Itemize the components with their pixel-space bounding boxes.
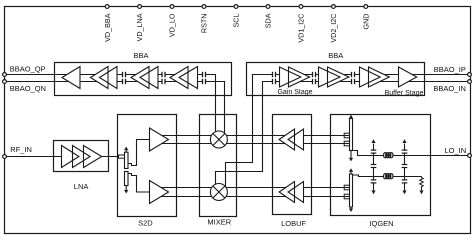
- capacitor (IQGEN column 1 upper, to VDD arrow): [372, 151, 374, 153]
- svg-text:VD_BBA: VD_BBA: [103, 13, 112, 42]
- pin VD_LO (top terminal): [170, 5, 174, 9]
- capacitor C2b (left BBA coupling, - line): [163, 80, 165, 82]
- capacitor (IQGEN column 2 lower, to ground): [403, 180, 405, 182]
- op-amp A8 (right BBA buffer output): [399, 67, 417, 87]
- svg-text:VD1_I2C: VD1_I2C: [297, 14, 306, 43]
- svg-text:LO_IN: LO_IN: [445, 146, 467, 155]
- svg-text:RF_IN: RF_IN: [10, 145, 32, 154]
- capacitor C4b (right BBA input coupling, - line): [273, 80, 275, 82]
- pin BBAO_QP (left terminal): [3, 73, 7, 77]
- op-amp LNA stage 1: [62, 146, 79, 168]
- capacitor C1a (left BBA coupling, + line): [123, 73, 125, 75]
- wire bottom differential pair - (S2D to MIXER to LOBUF to IQGEN): [152, 196, 349, 198]
- transistor Q1 (S2D single-to-differential splitter): [125, 152, 129, 185]
- gate staple of Q2 lower: [344, 141, 349, 146]
- op-amp A3b (left BBA stage): [140, 67, 158, 89]
- pin LO_IN (right terminal): [468, 154, 472, 158]
- wire IQGEN Q output + lead: [331, 187, 350, 189]
- svg-text:LNA: LNA: [74, 182, 89, 191]
- pin VD1_I2C (top terminal): [299, 5, 303, 9]
- gate staple of Q1: [119, 155, 125, 158]
- op-amp A7a (right BBA buffer stage): [360, 67, 381, 87]
- wire Q2 top to supply arrow: [350, 115, 352, 118]
- pin VD_BBA (top terminal): [105, 5, 109, 9]
- svg-text:MIXER: MIXER: [207, 217, 231, 226]
- pin BBAO_IP (right terminal): [468, 73, 472, 77]
- pin RSTN (top terminal): [202, 5, 206, 9]
- svg-text:Gain Stage: Gain Stage: [277, 89, 312, 96]
- svg-text:S2D: S2D: [138, 219, 153, 228]
- op-amp A7b (right BBA buffer stage): [369, 67, 390, 87]
- wire top differential pair - (S2D to MIXER to LOBUF to IQGEN): [152, 143, 349, 145]
- ground arrow below resistor R1: [419, 190, 423, 194]
- power arrow above IQGEN column 2: [402, 139, 406, 143]
- svg-text:SDA: SDA: [264, 13, 273, 28]
- wire IQGEN Q output - lead: [331, 196, 350, 198]
- capacitor (IQGEN column 2 upper, to VDD arrow): [403, 151, 405, 153]
- capacitor C3a (left BBA input coupling, + line): [203, 73, 205, 75]
- mixer M1 (top): [210, 131, 227, 148]
- transistor Q2 (IQGEN I-path buffer): [350, 119, 353, 151]
- svg-text:BBAO_QP: BBAO_QP: [10, 64, 46, 73]
- svg-text:BBA: BBA: [133, 51, 148, 60]
- capacitor C5b (right BBA coupling, - line): [313, 80, 315, 82]
- pin GND (top terminal): [364, 5, 368, 9]
- wire IQGEN I output + lead: [331, 135, 350, 137]
- power arrow above IQGEN column 1: [371, 139, 375, 143]
- wire BBAO_QP from port through left BBA to top mixer output +: [5, 75, 216, 140]
- op-amp S2D top amplifier: [150, 128, 169, 151]
- wire bottom differential pair + (S2D to MIXER to LOBUF to IQGEN): [152, 187, 349, 189]
- op-amp S2D bottom amplifier: [150, 181, 169, 204]
- pin BBAO_QN (left terminal): [3, 80, 7, 84]
- wire BBAO_IN from port through right BBA down to bottom mixer: [216, 82, 471, 193]
- power arrow (VDD) above IQGEN transistor Q2: [349, 115, 353, 119]
- block box S2D: [118, 115, 177, 217]
- op-amp LOBUF bottom buffer a: [279, 182, 294, 203]
- wire BBAO_QN from port through left BBA to top mixer output -: [5, 82, 225, 140]
- block box BBA (left, Q-channel baseband amplifier): [55, 63, 232, 96]
- op-amp A1 (left BBA output stage): [62, 67, 80, 89]
- wire Q1 source to ground arrow: [125, 186, 127, 190]
- ground arrow below IQGEN column 1: [371, 190, 375, 194]
- pin BBAO_IN (right terminal): [468, 80, 472, 84]
- capacitor C1b (left BBA coupling, - line): [123, 80, 125, 82]
- op-amp LOBUF bottom buffer b: [288, 182, 303, 203]
- op-amp A3a (left BBA stage): [131, 67, 149, 89]
- capacitor C6b (right BBA coupling, - line): [352, 80, 354, 82]
- svg-text:VD_LO: VD_LO: [168, 13, 177, 37]
- svg-text:BBAO_IP: BBAO_IP: [434, 65, 466, 74]
- svg-text:SCL: SCL: [232, 13, 241, 27]
- gate staple of Q3 upper: [344, 185, 349, 190]
- power arrow (VDD) above IQGEN transistor Q3: [349, 168, 353, 172]
- svg-text:VD_LNA: VD_LNA: [135, 13, 144, 41]
- wire RF_IN to LNA to S2D transistor gate: [5, 156, 119, 158]
- svg-text:LOBUF: LOBUF: [281, 219, 306, 228]
- op-amp LOBUF top buffer b: [288, 129, 303, 150]
- op-amp A4a (left BBA stage): [170, 67, 188, 89]
- pin RF_IN (left terminal): [3, 155, 7, 159]
- wire IQGEN shunt column 2 lower: [404, 177, 406, 191]
- svg-text:Buffer Stage: Buffer Stage: [385, 90, 424, 97]
- resistor R1 (IQGEN termination): [420, 177, 424, 191]
- capacitor (IQGEN column 2 coupling to bottom line): [403, 165, 405, 167]
- capacitor C5a (right BBA coupling, + line): [313, 73, 315, 75]
- block box MIXER: [200, 115, 237, 217]
- wire IQGEN shunt column 2 upper: [404, 144, 406, 177]
- block box LNA: [54, 141, 109, 172]
- wire top differential pair + (S2D to MIXER to LOBUF to IQGEN): [152, 135, 349, 137]
- ground arrow below IQGEN transistor Q2: [349, 158, 353, 162]
- op-amp LNA stage 2: [73, 146, 91, 168]
- op-amp A6a (right BBA gain stage): [319, 67, 341, 87]
- inductor L2 (IQGEN bottom line): [383, 173, 393, 179]
- block box IQGEN: [331, 115, 431, 216]
- op-amp A2a (left BBA stage): [91, 67, 109, 89]
- svg-text:GND: GND: [361, 14, 370, 30]
- wire IQGEN I output - lead: [331, 143, 350, 145]
- wire Q1 drain to supply arrow: [125, 150, 127, 152]
- op-amp A6b (right BBA gain stage): [328, 67, 349, 87]
- amplifier chain: left BBA stages: [62, 67, 80, 89]
- svg-text:RSTN: RSTN: [200, 14, 209, 34]
- wire LO_IN into IQGEN I-path transistor: [353, 151, 471, 156]
- transistor Q3 (IQGEN Q-path buffer): [350, 174, 353, 207]
- block box LOBUF: [273, 115, 312, 215]
- svg-text:BBAO_QN: BBAO_QN: [10, 84, 46, 93]
- op-amp LNA stage 3: [84, 146, 102, 168]
- capacitor (IQGEN column 1 lower, to ground): [372, 180, 374, 182]
- wire Q3 bottom to ground arrow: [350, 207, 352, 208]
- ground arrow below IQGEN transistor Q3: [349, 208, 353, 212]
- svg-text:IQGEN: IQGEN: [369, 219, 393, 228]
- ground arrow below S2D transistor Q1: [124, 190, 128, 194]
- gate staple of Q3 lower: [344, 194, 349, 199]
- wire S2D transistor tap to bottom amplifier input: [128, 174, 150, 193]
- wire BBAO_IP from port through right BBA down to bottom mixer: [226, 75, 471, 193]
- capacitor C2a (left BBA coupling, + line): [163, 73, 165, 75]
- wire S2D transistor tap to top amplifier input: [128, 140, 150, 166]
- pin SCL (top terminal): [234, 5, 238, 9]
- capacitor C4a (right BBA input coupling, + line): [273, 73, 275, 75]
- wire Q2 bottom to ground arrow: [350, 151, 352, 158]
- gate staple of Q2 upper: [344, 133, 349, 138]
- mixer M2 (bottom): [210, 184, 227, 201]
- ground arrow below IQGEN column 2: [402, 190, 406, 194]
- svg-text:BBA: BBA: [328, 51, 343, 60]
- op-amp A2b (left BBA stage): [100, 67, 118, 89]
- block box BBA (right, I-channel baseband amplifier): [247, 63, 425, 96]
- svg-text:BBAO_IN: BBAO_IN: [433, 84, 466, 93]
- op-amp A5b (right BBA gain stage): [289, 67, 310, 87]
- svg-text:VD2_I2C: VD2_I2C: [329, 14, 338, 43]
- wire IQGEN shunt column 1 lower: [373, 177, 375, 191]
- wire IQGEN bottom filter line to Q-path transistor: [353, 175, 422, 177]
- capacitor C6a (right BBA coupling, + line): [352, 73, 354, 75]
- pin VD_LNA (top terminal): [138, 5, 142, 9]
- op-amp A5a (right BBA gain stage): [280, 67, 301, 87]
- inductor L1 (IQGEN LO line): [383, 152, 393, 158]
- op-amp A4b (left BBA stage): [179, 67, 198, 89]
- power arrow (VDD) above S2D transistor Q1: [124, 147, 128, 151]
- wire Q3 top to supply arrow: [350, 172, 352, 174]
- wire IQGEN shunt column 1 upper: [373, 144, 375, 177]
- op-amp LOBUF top buffer a: [279, 129, 294, 150]
- capacitor (IQGEN column 1 coupling to bottom line): [372, 165, 374, 167]
- pin SDA (top terminal): [266, 5, 270, 9]
- capacitor C3b (left BBA input coupling, - line): [203, 80, 205, 82]
- pin VD2_I2C (top terminal): [332, 5, 336, 9]
